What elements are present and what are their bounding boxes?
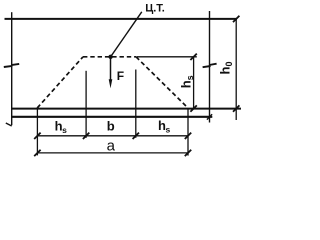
svg-text:Ц.Т.: Ц.Т. [145,3,165,15]
svg-text:F: F [117,69,124,83]
svg-text:b: b [107,118,115,133]
svg-text:a: a [107,137,116,154]
